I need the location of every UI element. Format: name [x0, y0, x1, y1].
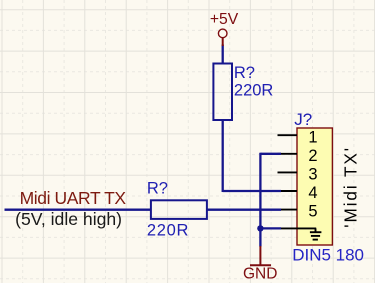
svg-text:DIN5 180: DIN5 180 — [292, 245, 364, 264]
svg-text:3: 3 — [308, 166, 317, 184]
svg-text:5: 5 — [308, 203, 317, 221]
svg-text:R?: R? — [147, 179, 168, 197]
svg-text:Midi UART TX: Midi UART TX — [20, 188, 127, 208]
svg-text:(5V, idle high): (5V, idle high) — [15, 209, 122, 229]
svg-text:R?: R? — [234, 64, 255, 82]
svg-text:'Midi TX': 'Midi TX' — [340, 146, 360, 228]
svg-text:+5V: +5V — [210, 11, 239, 28]
svg-text:GND: GND — [243, 265, 277, 282]
svg-text:4: 4 — [308, 184, 317, 202]
svg-text:220R: 220R — [147, 221, 189, 239]
svg-text:1: 1 — [308, 128, 317, 146]
svg-text:2: 2 — [308, 147, 317, 165]
svg-text:220R: 220R — [234, 82, 274, 100]
svg-text:J?: J? — [294, 110, 312, 129]
